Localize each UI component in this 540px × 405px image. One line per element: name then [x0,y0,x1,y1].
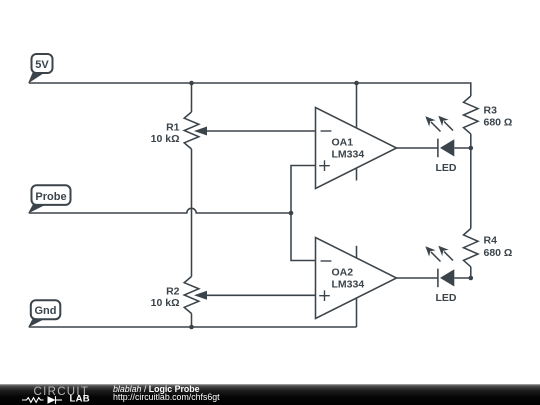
svg-text:R3: R3 [484,104,498,116]
svg-text:LED: LED [436,292,457,304]
svg-text:OA2: OA2 [332,266,354,278]
svg-text:R4: R4 [484,235,498,247]
svg-text:LM334: LM334 [332,149,365,161]
svg-text:OA1: OA1 [332,136,354,148]
svg-text:LED: LED [436,162,457,174]
svg-text:R2: R2 [166,285,180,297]
svg-text:LM334: LM334 [332,279,365,291]
svg-text:Gnd: Gnd [35,305,57,317]
svg-text:10 kΩ: 10 kΩ [151,297,180,309]
svg-text:680 Ω: 680 Ω [484,117,513,129]
svg-text:Probe: Probe [35,191,66,203]
svg-text:5V: 5V [35,59,49,71]
svg-text:R1: R1 [166,121,180,133]
svg-text:http://circuitlab.com/chfs6gt: http://circuitlab.com/chfs6gt [113,392,220,402]
svg-text:680 Ω: 680 Ω [484,247,513,259]
svg-text:10 kΩ: 10 kΩ [151,133,180,145]
svg-text:LAB: LAB [70,394,90,405]
